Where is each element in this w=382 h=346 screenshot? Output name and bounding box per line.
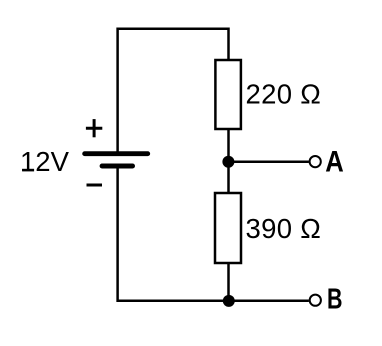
svg-text:390 Ω: 390 Ω: [246, 213, 322, 244]
svg-text:220 Ω: 220 Ω: [246, 79, 322, 110]
svg-text:B: B: [327, 284, 343, 316]
svg-text:A: A: [325, 146, 344, 179]
svg-text:12V: 12V: [20, 146, 70, 177]
